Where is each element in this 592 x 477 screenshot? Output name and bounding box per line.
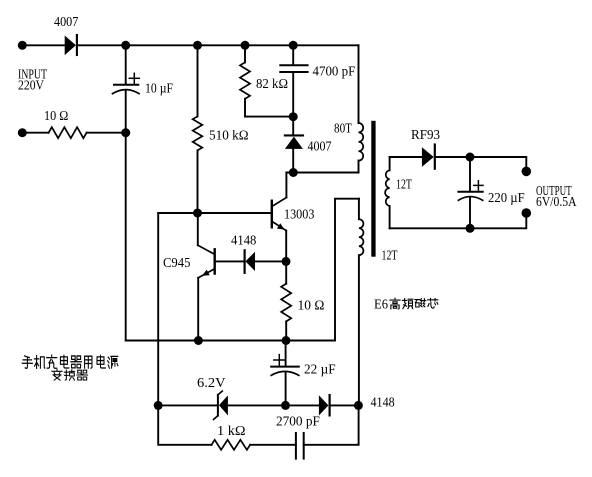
diode D2 4007 vertical (285, 117, 332, 173)
diode D3 RF93 (411, 128, 440, 169)
label title cellphone charger power supply converter (22, 355, 118, 368)
wire D3 to output top (436, 157, 527, 171)
wire secondary bottom rail (390, 213, 527, 228)
node J6 (289, 112, 298, 121)
node J15 (281, 401, 290, 410)
wire C1 top lead (125, 45, 127, 84)
node J1 top of C1 (121, 41, 130, 50)
wire input to D1 (22, 44, 64, 46)
transformer primary winding 80T (334, 122, 363, 173)
node AC input top terminal (18, 41, 27, 50)
svg-text:C945: C945 (163, 256, 190, 271)
resistor R1 10 ohm (44, 109, 87, 138)
svg-text:80T: 80T (334, 122, 352, 137)
wire J7 to primary bottom (286, 172, 358, 174)
wire base rail to Q1 (158, 212, 271, 214)
svg-text:4700 pF: 4700 pF (313, 65, 356, 80)
svg-text:510 kΩ: 510 kΩ (209, 129, 249, 144)
wire middle rail (126, 340, 335, 342)
node J13 (282, 336, 291, 345)
wire bottom loop right (304, 405, 359, 444)
diode D1 4007 (54, 15, 78, 55)
svg-text:4007: 4007 (54, 15, 78, 30)
transformer feedback winding 12T (359, 199, 398, 406)
node J12 (194, 336, 203, 345)
diode D4 4148 (231, 234, 286, 273)
node J10 base node (193, 209, 202, 218)
node J2 top of R2 (193, 41, 202, 50)
svg-text:10 Ω: 10 Ω (298, 299, 325, 314)
svg-text:10 µF: 10 µF (145, 82, 173, 97)
svg-text:10 Ω: 10 Ω (44, 109, 68, 124)
wire zener rail (158, 404, 217, 406)
svg-text:22 µF: 22 µF (304, 363, 336, 378)
transformer secondary winding 12T (385, 157, 412, 228)
transistor Q2 C945 (163, 213, 244, 341)
svg-text:4148: 4148 (371, 396, 395, 411)
capacitor C4 22uF (271, 341, 336, 406)
wire C1 bottom lead (125, 91, 127, 133)
wire rail up to feedback winding (335, 199, 359, 341)
resistor R3 82k (240, 45, 288, 116)
wire bottom loop left (158, 405, 211, 444)
node J4 top of C2 (289, 41, 298, 50)
wire primary top lead (358, 45, 360, 123)
wire R1 to J5 (87, 132, 126, 134)
node J8 top of C3 (466, 153, 475, 162)
wire top rail (78, 44, 359, 46)
wire zener to J15 (228, 404, 319, 406)
wire secondary top to D3 (390, 156, 422, 158)
svg-text:82 kΩ: 82 kΩ (256, 77, 288, 92)
diode D5 4148 (319, 395, 395, 415)
resistor R4 10 ohm (281, 261, 324, 340)
node output plus terminal (522, 167, 532, 177)
resistor R2 510k (193, 45, 249, 213)
node J7 collector node (289, 168, 298, 177)
svg-text:13003: 13003 (284, 208, 314, 223)
wire R3 bottom to J6 (245, 116, 293, 118)
transistor Q1 13003 (272, 173, 315, 262)
wire input to R1 (22, 132, 48, 134)
svg-text:E6: E6 (374, 298, 388, 313)
zener Z1 6.2V (197, 376, 228, 420)
node J16 (354, 401, 363, 410)
svg-text:12T: 12T (396, 178, 412, 193)
wire R5 to C5 (250, 444, 296, 446)
svg-text:4007: 4007 (308, 140, 332, 155)
transformer core (371, 121, 375, 257)
node J9 bottom of C3 (466, 224, 475, 233)
node J5 (121, 128, 130, 137)
svg-text:1 kΩ: 1 kΩ (217, 424, 246, 439)
label INPUT 220V (18, 68, 47, 94)
svg-text:4148: 4148 (231, 234, 256, 249)
svg-text:RF93: RF93 (411, 128, 440, 143)
node J14 (154, 401, 163, 410)
svg-text:220 µF: 220 µF (488, 191, 525, 206)
node AC input bottom terminal (18, 128, 27, 137)
node J11 emitter node (282, 257, 291, 266)
capacitor C2 4700pF (280, 45, 355, 116)
svg-text:6.2V: 6.2V (197, 376, 226, 391)
capacitor C1 10uF (113, 73, 174, 96)
resistor R5 1k (212, 424, 251, 450)
label title line2 (52, 370, 88, 381)
node output minus terminal (522, 208, 532, 218)
svg-text:220V: 220V (18, 79, 44, 94)
capacitor C3 220uF (458, 157, 524, 228)
svg-text:12T: 12T (382, 249, 398, 264)
wire left vertical rail (125, 133, 127, 341)
label E6 core (374, 298, 438, 313)
capacitor C5 2700pF (276, 415, 320, 459)
label OUTPUT 6V/0.5A (536, 184, 577, 210)
svg-text:2700 pF: 2700 pF (276, 415, 320, 430)
node J3 top of R3 (241, 41, 250, 50)
wire left feedback vertical (157, 213, 159, 405)
svg-text:6V/0.5A: 6V/0.5A (536, 195, 577, 210)
